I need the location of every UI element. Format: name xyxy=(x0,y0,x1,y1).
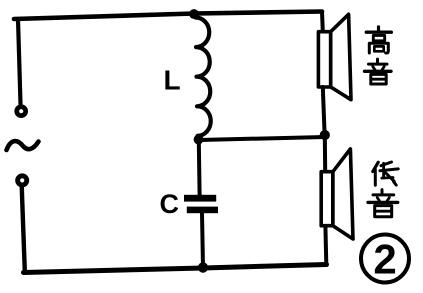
ac source terminal (bottom) xyxy=(15,173,29,187)
capacitor C plate (bottom) xyxy=(187,207,218,214)
svg-text:C: C xyxy=(160,189,180,219)
label 音 (treble kanji 2) xyxy=(365,59,392,84)
speaker woofer driver body xyxy=(321,172,333,226)
wire inductor bottom to capacitor xyxy=(197,141,202,195)
label 高 (treble kanji 1) xyxy=(366,27,391,53)
node junction at top of inductor xyxy=(189,9,199,19)
wire from inductor bottom to tweeter branch xyxy=(199,137,325,140)
wire tweeter to junction xyxy=(323,87,325,134)
wire capacitor to bottom rail xyxy=(202,214,203,268)
wire left vertical upper xyxy=(18,19,21,104)
inductor L xyxy=(196,17,211,135)
ac source terminal (top) xyxy=(14,104,28,118)
speaker woofer cone xyxy=(333,149,353,239)
speaker tweeter driver body xyxy=(318,32,330,87)
wire bottom rail xyxy=(24,265,327,273)
figure number circle xyxy=(361,235,409,283)
capacitor C plate (top) xyxy=(184,195,216,202)
wire left vertical lower xyxy=(22,188,25,272)
svg-text:L: L xyxy=(164,65,181,96)
label 低 (bass kanji 1) xyxy=(373,162,398,185)
svg-text:2: 2 xyxy=(373,236,396,283)
node junction at bottom rail xyxy=(198,262,208,272)
wire woofer to bottom rail xyxy=(323,226,328,264)
wire right vertical to tweeter xyxy=(320,12,325,32)
ac source sine symbol xyxy=(7,141,39,150)
wire junction to woofer xyxy=(323,136,327,172)
label 音 (bass kanji 2) xyxy=(368,190,398,217)
wire top rail xyxy=(14,12,322,20)
speaker tweeter cone xyxy=(331,14,351,99)
node junction between speakers xyxy=(320,130,330,140)
node junction at bottom of inductor xyxy=(194,135,204,145)
